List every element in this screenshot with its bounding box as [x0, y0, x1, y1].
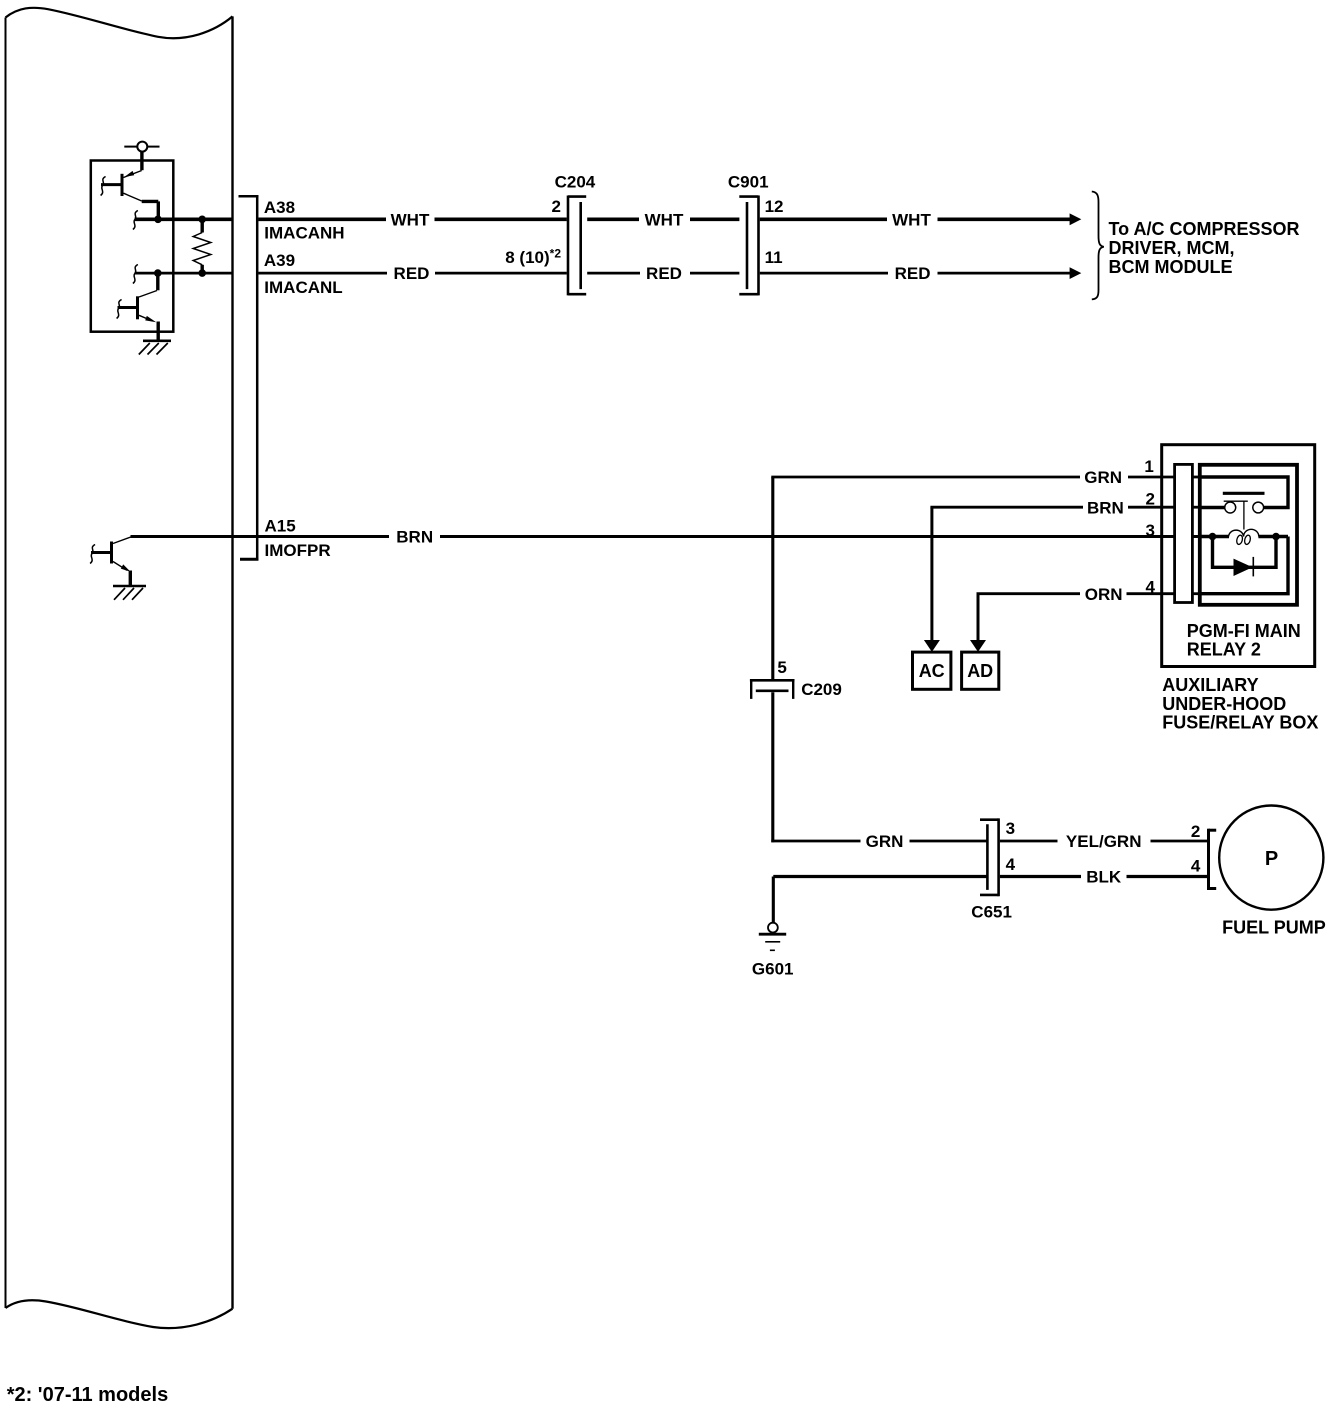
connector C204: [568, 196, 586, 296]
wire BRN (relay pin 2 to AC arrow): [924, 507, 1200, 652]
pin 2 label (fuel pump): [1191, 822, 1200, 841]
wire color label WHT 3: [892, 210, 931, 229]
wire color label RED 1: [394, 264, 430, 283]
wire color label YEL/GRN: [1066, 832, 1142, 851]
svg-text:BRN: BRN: [396, 528, 433, 547]
wire color label WHT 2: [645, 210, 684, 229]
connector C651 label: [971, 903, 1012, 922]
ground G601: [759, 923, 786, 951]
svg-text:FUEL PUMP: FUEL PUMP: [1222, 917, 1326, 937]
relay pin 4 internal path: [1200, 537, 1288, 594]
box AD label: [967, 661, 993, 681]
connector C209 label: [801, 680, 842, 699]
svg-text:RELAY 2: RELAY 2: [1187, 640, 1261, 660]
svg-text:A39: A39: [264, 251, 295, 270]
wire WHT (C204 to C901): [587, 218, 739, 222]
wire RED (C204 to C901): [587, 272, 739, 275]
svg-text:1: 1: [1144, 457, 1153, 476]
wire WHT (C901 to A/C compressor driver, with arrow): [760, 213, 1082, 225]
relay pin 2 internal path to movable contact: [1200, 506, 1225, 509]
svg-text:GRN: GRN: [866, 832, 904, 851]
destination note: To A/C compressor driver, MCM, BCM module: [1109, 219, 1300, 277]
svg-text:To A/C COMPRESSOR: To A/C COMPRESSOR: [1109, 219, 1300, 239]
net IMOFPR label: [265, 541, 331, 560]
svg-text:2: 2: [552, 197, 561, 216]
svg-text:AC: AC: [919, 661, 945, 681]
ground (CAN driver emitter): [139, 341, 171, 355]
svg-text:BRN: BRN: [1087, 498, 1124, 517]
auxiliary under-hood fuse/relay box outline: [1162, 445, 1315, 667]
footnote *2: '07-11 models: [7, 1384, 169, 1406]
box AC (destination): [913, 652, 951, 689]
svg-text:5: 5: [777, 658, 786, 677]
svg-text:RED: RED: [394, 264, 430, 283]
relay pin 4 number: [1146, 578, 1156, 597]
wire ORN (relay pin 4 to AD arrow): [970, 594, 1200, 652]
ECM connector bracket (pins A38/A39/A15): [239, 195, 259, 561]
svg-text:IMACANH: IMACANH: [264, 224, 344, 243]
wire RED (C901 to A/C compressor driver, with arrow): [760, 267, 1082, 279]
net IMACANH label: [264, 224, 344, 243]
svg-text:GRN: GRN: [1084, 468, 1122, 487]
pin 2 label (C204): [552, 197, 561, 216]
svg-text:YEL/GRN: YEL/GRN: [1066, 832, 1142, 851]
wire YEL/GRN (C651 to fuel pump pin 2): [1000, 840, 1207, 843]
wire GRN vertical (pin 1 branch down through C209): [771, 477, 774, 842]
relay pin 3 number: [1146, 521, 1155, 540]
svg-text:C209: C209: [801, 680, 842, 699]
transistor Q2 (NPN, CAN-L driver): [117, 269, 162, 340]
connector C901 label: [728, 172, 769, 191]
wire color label BRN (relay pin 2): [1087, 498, 1124, 517]
connector C901: [739, 196, 758, 296]
wire color label RED 2: [646, 264, 682, 283]
wire color label BLK: [1086, 868, 1122, 887]
wire A15 BRN (ECM through C209 node to relay pin 3): [131, 535, 1200, 538]
fuel pump connector bracket: [1209, 829, 1217, 890]
auxiliary under-hood fuse/relay box label: [1162, 675, 1318, 733]
svg-text:C204: C204: [555, 172, 596, 191]
svg-text:FUSE/RELAY BOX: FUSE/RELAY BOX: [1162, 713, 1318, 733]
svg-text:3: 3: [1146, 521, 1155, 540]
pin 3 label (C651): [1006, 819, 1015, 838]
svg-text:4: 4: [1006, 855, 1016, 874]
fuel pump P symbol: [1265, 848, 1278, 870]
pin 11 label (C901): [765, 248, 783, 267]
svg-text:RED: RED: [646, 264, 682, 283]
svg-text:3: 3: [1006, 819, 1015, 838]
relay coil (pin 3 to pin 4): [1200, 529, 1288, 545]
svg-text:4: 4: [1191, 857, 1201, 876]
wire color label BRN (A15 row): [396, 528, 433, 547]
svg-text:*2: '07-11 models: *2: '07-11 models: [7, 1384, 169, 1406]
svg-text:BCM MODULE: BCM MODULE: [1109, 257, 1233, 277]
svg-text:C901: C901: [728, 172, 769, 191]
wire BLK (fuel pump pin 4 to G601): [773, 877, 1207, 923]
connector C651: [980, 818, 999, 896]
pin 5 label (C209): [777, 658, 786, 677]
svg-text:ORN: ORN: [1085, 585, 1123, 604]
box AD (destination): [962, 652, 999, 689]
transistor Q3 (NPN, IMOFPR driver): [90, 537, 131, 586]
svg-text:WHT: WHT: [645, 210, 684, 229]
pin 8 (10) label (C204): [505, 246, 561, 267]
svg-text:RED: RED: [895, 264, 931, 283]
svg-text:IMACANL: IMACANL: [264, 278, 342, 297]
brace (to A/C compressor driver, MCM, BCM module): [1092, 192, 1104, 300]
wire GRN (C209 branch to C651 pin 3): [771, 840, 987, 843]
svg-text:UNDER-HOOD: UNDER-HOOD: [1162, 694, 1286, 714]
svg-text:AUXILIARY: AUXILIARY: [1162, 675, 1258, 695]
PGM-FI main relay 2 box: [1200, 465, 1297, 605]
connector C204 label: [555, 172, 596, 191]
wire A38 WHT (ECM to C204): [258, 218, 566, 222]
fuel pump (motor circle): [1219, 806, 1323, 910]
CAN driver box inside ECM: [91, 161, 174, 332]
pin A15 label: [265, 517, 296, 536]
relay connector face: [1175, 464, 1193, 602]
power supply node (circle): [124, 142, 159, 171]
svg-text:IMOFPR: IMOFPR: [265, 541, 331, 560]
relay pin 1 internal path to fixed contact: [1200, 477, 1288, 508]
svg-text:A38: A38: [264, 198, 295, 217]
wire color label WHT 1: [391, 210, 430, 229]
svg-text:A15: A15: [265, 517, 296, 536]
svg-text:12: 12: [765, 197, 784, 216]
svg-text:G601: G601: [752, 960, 794, 979]
svg-text:8 (10)*2: 8 (10)*2: [505, 246, 561, 267]
resistor R (CAN termination): [193, 216, 211, 277]
svg-text:DRIVER, MCM,: DRIVER, MCM,: [1109, 238, 1235, 258]
pin 4 label (C651): [1006, 855, 1016, 874]
svg-text:P: P: [1265, 848, 1278, 870]
fuel pump label: [1222, 917, 1326, 937]
svg-text:11: 11: [765, 248, 783, 267]
svg-text:AD: AD: [967, 661, 993, 681]
relay contact circles: [1225, 502, 1264, 513]
box AC label: [919, 661, 945, 681]
PGM-FI main relay 2 label: [1187, 621, 1301, 660]
transistor Q1 (PNP, CAN-H driver): [101, 171, 162, 224]
svg-text:2: 2: [1191, 822, 1200, 841]
relay contact bar and armature link: [1223, 493, 1265, 529]
connector C209: [750, 680, 795, 699]
pin A39 label: [264, 251, 295, 270]
pin 12 label (C901): [765, 197, 784, 216]
pin 4 label (fuel pump): [1191, 857, 1201, 876]
svg-text:PGM-FI MAIN: PGM-FI MAIN: [1187, 621, 1301, 641]
wire color label ORN (relay pin 4): [1085, 585, 1123, 604]
wire GRN (relay pin 1 to junction at C209 branch): [771, 476, 1200, 479]
svg-text:2: 2: [1146, 490, 1155, 509]
wire A39 RED (ECM to C204): [258, 272, 566, 275]
wire A38 stub inside ECM (with continuation squiggle): [133, 211, 234, 230]
net IMACANL label: [264, 278, 342, 297]
ground G601 label: [752, 960, 794, 979]
svg-text:WHT: WHT: [892, 210, 931, 229]
svg-text:WHT: WHT: [391, 210, 430, 229]
pin A38 label: [264, 198, 295, 217]
wire color label GRN (to C651): [866, 832, 904, 851]
relay pin 2 number: [1146, 490, 1155, 509]
wire color label RED 3: [895, 264, 931, 283]
svg-text:4: 4: [1146, 578, 1156, 597]
relay pin 1 number: [1144, 457, 1153, 476]
wire A39 stub inside ECM (with continuation squiggle): [133, 265, 234, 284]
ECM/PCM module outline (torn-edge body): [6, 8, 233, 1328]
ground (Q3 emitter): [113, 586, 146, 600]
wire color label GRN (relay pin 1): [1084, 468, 1122, 487]
relay flyback diode loop: [1213, 537, 1277, 577]
svg-text:C651: C651: [971, 903, 1012, 922]
svg-text:BLK: BLK: [1086, 868, 1122, 887]
